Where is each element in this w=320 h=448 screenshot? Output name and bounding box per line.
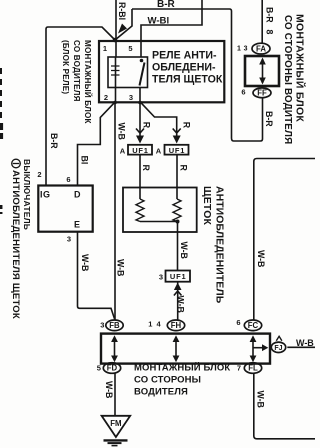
svg-text:A: A (156, 147, 162, 156)
svg-text:ТЕЛЯ ЩЕТОК: ТЕЛЯ ЩЕТОК (152, 74, 223, 86)
svg-text:W-B: W-B (116, 259, 126, 276)
svg-text:6: 6 (236, 318, 240, 327)
svg-text:R-Bl: R-Bl (117, 2, 127, 20)
svg-text:W-B: W-B (179, 242, 189, 259)
svg-text:FJ: FJ (274, 345, 282, 352)
svg-text:B-R: B-R (49, 133, 59, 149)
svg-text:3: 3 (129, 93, 133, 102)
svg-text:W-B: W-B (117, 123, 127, 140)
svg-text:R: R (179, 165, 189, 172)
svg-text:R: R (141, 165, 151, 172)
svg-text:UF1: UF1 (169, 146, 186, 155)
svg-text:6: 6 (66, 175, 70, 184)
svg-text:FD: FD (107, 364, 118, 373)
svg-text:W-B: W-B (296, 338, 314, 348)
svg-text:3: 3 (67, 235, 71, 244)
svg-text:FM: FM (110, 419, 121, 428)
svg-text:W-B: W-B (80, 254, 90, 271)
svg-text:D: D (74, 190, 81, 200)
svg-text:АНТИОБЛЕДЕНИТЕЛЯ ЩЕТОК: АНТИОБЛЕДЕНИТЕЛЯ ЩЕТОК (10, 170, 21, 319)
svg-text:СО СТОРОНЫ: СО СТОРОНЫ (134, 375, 201, 386)
svg-text:ВОДИТЕЛЯ: ВОДИТЕЛЯ (134, 386, 188, 397)
svg-text:2: 2 (104, 93, 108, 102)
svg-text:B-R: B-R (265, 7, 275, 23)
svg-text:FB: FB (109, 321, 120, 330)
svg-text:ЩЕТОК: ЩЕТОК (201, 186, 212, 225)
svg-text:АНТИОБЛЕДЕНИТЕЛЬ: АНТИОБЛЕДЕНИТЕЛЬ (214, 186, 225, 304)
svg-text:ВЫКЛЮЧАТЕЛЬ: ВЫКЛЮЧАТЕЛЬ (22, 159, 32, 230)
svg-text:6: 6 (241, 88, 245, 97)
svg-text:1: 1 (103, 44, 107, 53)
svg-text:МОНТАЖНЫЙ БЛОК: МОНТАЖНЫЙ БЛОК (294, 14, 307, 122)
svg-text:СО СТОРОНЫ ВОДИТЕЛЯ: СО СТОРОНЫ ВОДИТЕЛЯ (282, 15, 293, 144)
svg-text:МОНТАЖНЫЙ БЛОК: МОНТАЖНЫЙ БЛОК (83, 40, 92, 124)
svg-text:E: E (74, 220, 80, 230)
svg-text:IG: IG (40, 190, 51, 200)
svg-text:СО ВОДИТЕЛЯ: СО ВОДИТЕЛЯ (72, 40, 81, 102)
svg-text:FH: FH (171, 321, 182, 330)
svg-text:Bl: Bl (80, 156, 90, 165)
svg-text:5: 5 (128, 44, 132, 53)
svg-text:РЕЛЕ АНТИ-: РЕЛЕ АНТИ- (152, 50, 217, 62)
svg-text:UF1: UF1 (170, 272, 187, 281)
svg-text:5: 5 (97, 364, 101, 373)
svg-text:1 4: 1 4 (148, 320, 161, 329)
svg-text:B-R: B-R (264, 111, 274, 127)
svg-text:W-B: W-B (256, 391, 266, 408)
svg-text:UF1: UF1 (132, 146, 149, 155)
svg-text:FC: FC (248, 321, 259, 330)
svg-text:A: A (120, 147, 126, 156)
svg-text:8: 8 (265, 30, 275, 35)
svg-text:FF: FF (257, 88, 267, 97)
svg-text:ОБЛЕДЕНИ-: ОБЛЕДЕНИ- (152, 62, 216, 74)
svg-text:1 3: 1 3 (237, 46, 248, 53)
svg-text:3: 3 (100, 321, 104, 330)
svg-text:FL: FL (248, 364, 258, 373)
svg-text:7: 7 (237, 364, 241, 373)
svg-text:W-Bl: W-Bl (148, 16, 170, 27)
svg-text:(БЛОК РЕЛЕ): (БЛОК РЕЛЕ) (61, 40, 70, 94)
svg-text:W-B: W-B (176, 296, 186, 313)
svg-text:R: R (142, 122, 152, 129)
svg-text:W-B: W-B (104, 381, 114, 398)
svg-text:B-R: B-R (157, 0, 176, 10)
svg-text:W-B: W-B (256, 250, 266, 267)
svg-text:FA: FA (256, 44, 266, 53)
svg-text:R: R (182, 122, 192, 129)
svg-text:3: 3 (159, 273, 163, 282)
svg-text:МОНТАЖНЫЙ БЛОК: МОНТАЖНЫЙ БЛОК (134, 362, 230, 374)
svg-text:2: 2 (37, 170, 41, 179)
